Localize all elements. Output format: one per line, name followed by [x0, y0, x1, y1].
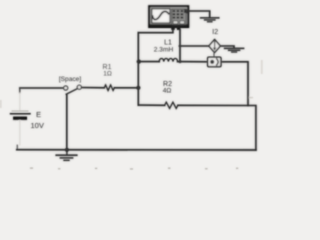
dependent source I2 (diamond) [209, 40, 220, 53]
wire switch to R1 [82, 87, 105, 89]
inductor L1 coil [159, 59, 177, 62]
wire bus to R2 [138, 104, 164, 106]
node junction bottom ground [65, 148, 69, 152]
battery E plates [11, 111, 30, 118]
wire to diamond source [180, 45, 209, 47]
meter box (current sensor) [208, 57, 221, 66]
ground (right of I2) [225, 48, 244, 52]
resistor R2 zigzag [165, 102, 178, 108]
wire meter box to right corner, down, jog, down to bottom bus [221, 62, 256, 150]
switch S1 [64, 85, 82, 94]
wire R1 to left bus [114, 87, 138, 89]
oscilloscope screen waveform [153, 11, 169, 19]
node junction scope-B wire on L1 branch [179, 60, 182, 63]
bottom bus wire [17, 149, 256, 151]
node junction at scope B / I2 wire [179, 45, 182, 48]
wire R2 to right corner [178, 104, 248, 106]
wire scope terminal B down [179, 30, 181, 62]
battery bottom lead (faint in scan) [19, 121, 21, 146]
wire scope terminal A down and left [138, 30, 173, 33]
oscilloscope XSC1 body [149, 6, 189, 30]
resistor R1 zigzag [104, 85, 114, 90]
wire bus to L1 [138, 61, 159, 63]
oscilloscope terminal A (bottom-left) [171, 27, 174, 30]
scan noise specks [0, 60, 263, 170]
oscilloscope control panel [172, 9, 187, 25]
battery top lead (faint in scan) [19, 88, 21, 93]
oscilloscope terminal B (bottom-right) [177, 27, 180, 30]
ground (top right, scope) [201, 18, 219, 22]
wire diamond to right ground [220, 46, 234, 48]
stub diamond to meter box [213, 53, 215, 58]
wire scope right side to top-right ground [189, 11, 210, 17]
wire L1 to meter box [178, 61, 208, 63]
node junction L1-left on bus [137, 60, 141, 64]
wire switch lower throw down to bottom bus [66, 94, 68, 149]
wire battery top to switch [20, 87, 64, 89]
node junction R1 wire on bus [136, 86, 140, 90]
ground (bottom) [56, 150, 77, 161]
wire left vertical bus [137, 33, 139, 105]
